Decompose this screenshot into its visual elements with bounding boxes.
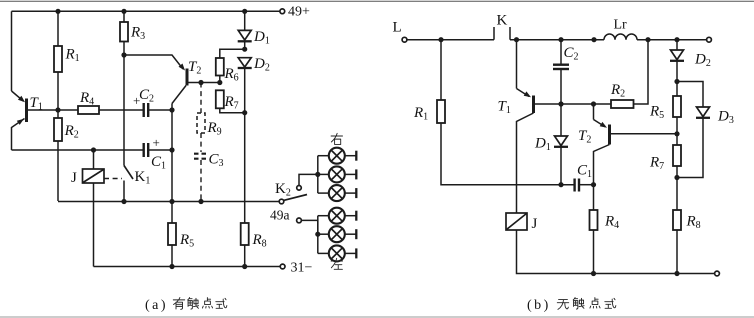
capacitor C2 b (560, 40, 562, 65)
wire T1 emitter row y=150 (12, 149, 144, 151)
wire top rail right (510, 39, 604, 41)
wire J bottom + bottom rail b (517, 230, 715, 274)
node row201 dashed tap (198, 199, 203, 204)
lamp left-1 (318, 208, 357, 224)
terminal 49a (297, 218, 302, 223)
svg-text:31−: 31− (291, 261, 313, 276)
node 31- bottom rail (94, 266, 281, 268)
resistor R7 (216, 90, 224, 108)
node R8 bottom (674, 271, 679, 276)
terminal right bottom (715, 271, 720, 276)
diode D1 (244, 11, 246, 30)
svg-text:Lr: Lr (614, 18, 628, 33)
wire left rail down to T1 collector (11, 11, 13, 91)
wire D1 junction to R6 (220, 49, 245, 58)
label 左 (331, 258, 342, 269)
relay coil J b (506, 213, 527, 230)
lamp right-1 (318, 148, 357, 164)
diode D3 b (677, 82, 703, 108)
lamp right-3 (318, 185, 357, 201)
svg-text:J: J (71, 170, 77, 186)
node T2 base / R5R7 (674, 131, 679, 136)
node T2 base tap (198, 80, 203, 85)
svg-text:(b): (b) (527, 298, 551, 313)
capacitor C3 (dashed) (200, 133, 202, 152)
resistor R5 b (676, 82, 678, 97)
svg-text:L: L (393, 20, 402, 36)
terminal 49+ (280, 9, 285, 14)
transistor T1 (12, 91, 59, 150)
node base T1 junction (55, 107, 60, 112)
page border top (0, 0, 754, 2)
resistor R6 (216, 58, 224, 76)
node C2 bottom (558, 101, 563, 106)
resistor R2 (57, 110, 59, 118)
svg-text:(a): (a) (145, 298, 168, 313)
node R7 bottom (674, 175, 679, 180)
resistor R4 (58, 109, 78, 111)
resistor R1 (57, 11, 59, 46)
wire lower lamp bus (317, 216, 319, 254)
resistor R8 (241, 223, 249, 245)
diode D2 (238, 58, 251, 67)
label 右 (331, 133, 342, 144)
resistor R5 (168, 223, 176, 245)
svg-text:49+: 49+ (288, 5, 310, 20)
node row201 x=172 (169, 199, 174, 204)
wire R2 bottom to row y=201 (57, 141, 59, 201)
node D1 bottom (242, 47, 247, 52)
node 49+ top rail (12, 10, 280, 12)
wire row y=201 (58, 201, 279, 203)
diode D1 b (560, 104, 562, 136)
terminal right top (707, 37, 712, 42)
svg-text:J: J (532, 216, 538, 232)
resistor R9 (dashed) (200, 83, 202, 114)
resistor R3 (123, 11, 125, 22)
node R7/D2 junction (242, 110, 247, 115)
contact K1 (124, 166, 133, 180)
transistor T2 (124, 55, 220, 104)
resistor R4 b (593, 185, 595, 210)
wire upper lamp bus (317, 156, 319, 193)
node D1 bottom (558, 182, 563, 187)
transistor T1 b (498, 40, 612, 213)
resistor R1 b (440, 40, 442, 100)
resistor R7 b (676, 134, 678, 145)
node J top (91, 147, 96, 152)
caption (a) (145, 298, 227, 313)
node K1 bottom (121, 199, 126, 204)
switch K (493, 27, 495, 40)
svg-text:49a: 49a (270, 208, 290, 223)
wire top rail left (407, 39, 494, 41)
node T2 collector tap (591, 101, 596, 106)
inductor Lr (604, 34, 637, 40)
resistor R2 b (611, 100, 634, 108)
lamp right-2 (318, 166, 357, 182)
capacitor C2 (142, 103, 144, 117)
caption (b) (527, 298, 616, 313)
resistor R8 b (676, 178, 678, 211)
node R3 bottom (121, 52, 126, 57)
node R4 bottom (591, 271, 596, 276)
wire R3 column down to K1 (123, 42, 125, 166)
node C2 right (169, 107, 174, 112)
node C1 right (169, 147, 174, 152)
capacitor C1 (142, 143, 144, 157)
wire T2 emitter column x=172 (171, 104, 173, 224)
wire J bottom to bottom rail (93, 183, 95, 267)
transistor T2 b (578, 104, 677, 185)
wire column x=244.7 down to R8 (244, 113, 246, 223)
node C1 right (591, 182, 596, 187)
capacitor C1 b (573, 179, 575, 192)
node rail dots b (438, 37, 443, 42)
diode D2 b (676, 40, 678, 50)
node rail dots (55, 9, 60, 14)
svg-text:+: + (153, 135, 160, 150)
lamp left-3 (318, 245, 357, 261)
svg-text:K: K (497, 13, 508, 29)
node R6/R7 junction (217, 80, 222, 85)
page border bottom (0, 316, 754, 318)
lamp left-2 (318, 226, 357, 242)
relay coil J (93, 150, 95, 169)
terminal 31- (280, 264, 285, 269)
node D2 bottom (674, 79, 679, 84)
contact K2 (279, 199, 284, 204)
